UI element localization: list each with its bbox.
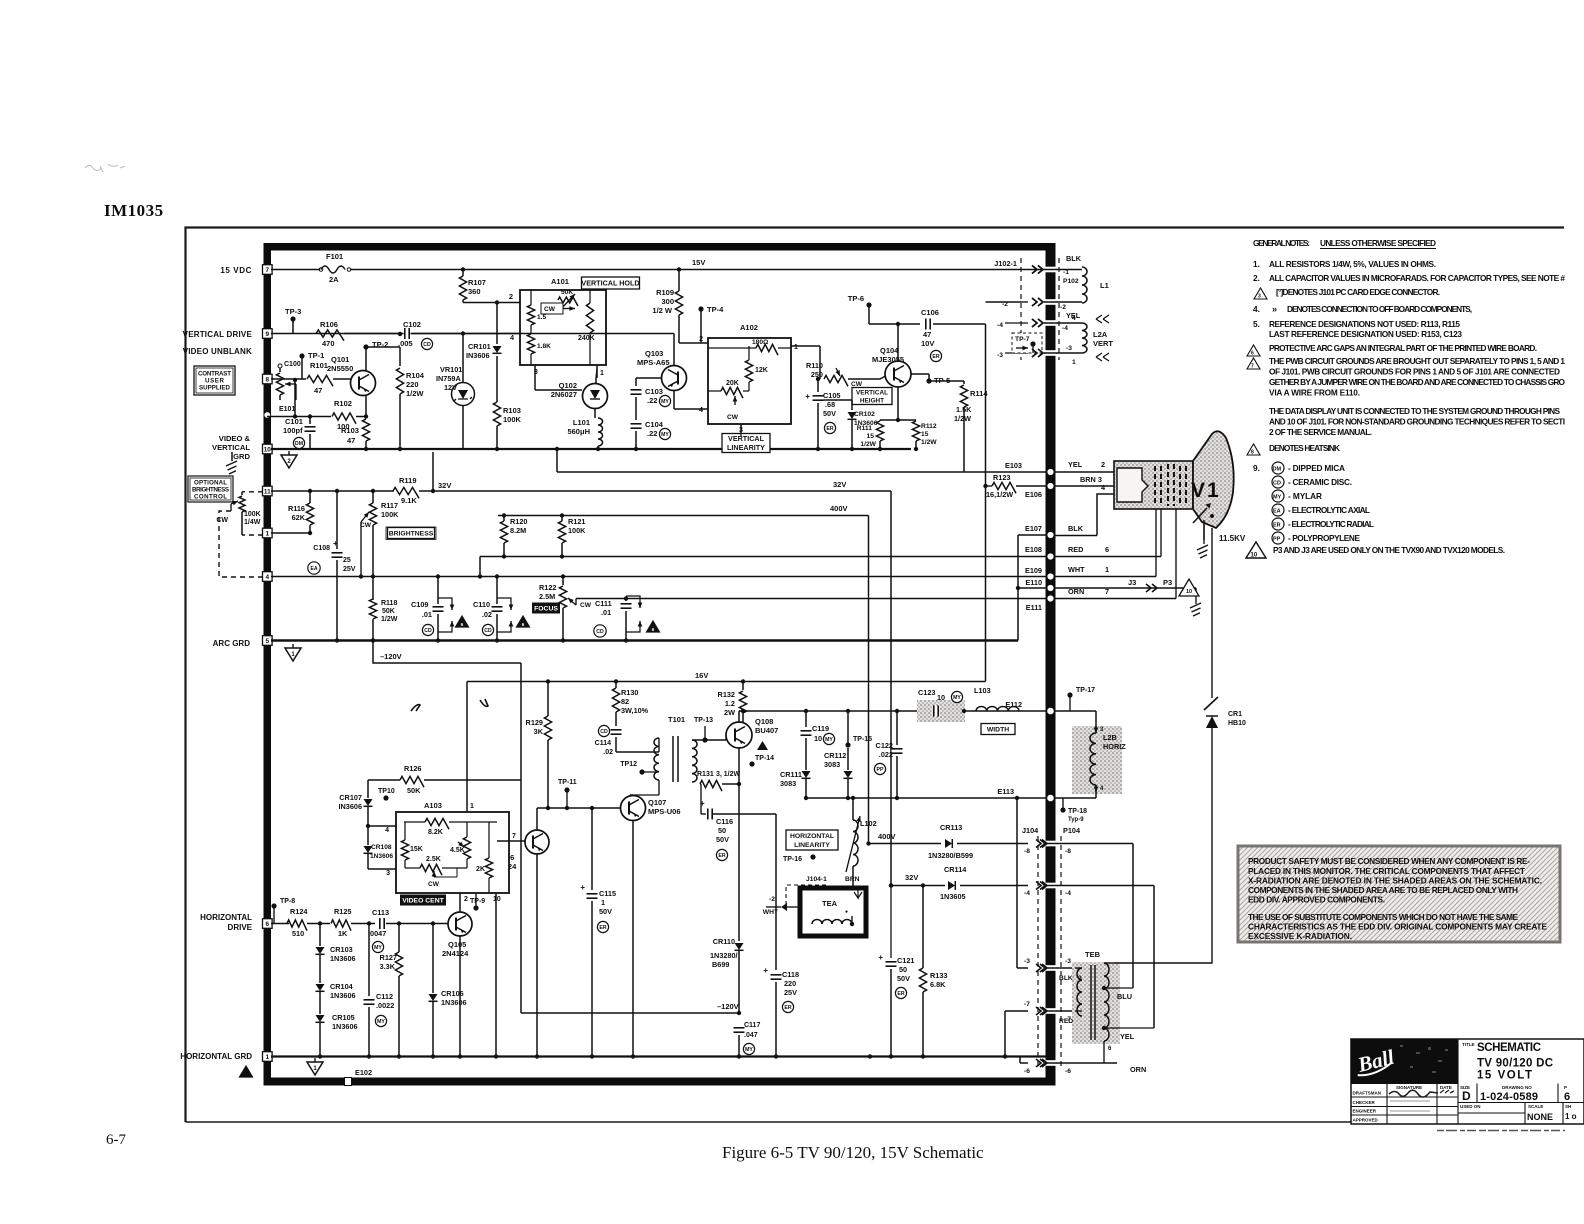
svg-text:1.: 1. [1253, 259, 1260, 269]
svg-text:62K: 62K [292, 513, 306, 522]
A103 resistor 15K [401, 840, 408, 860]
svg-text:TP-13: TP-13 [694, 717, 713, 724]
svg-text:.22: .22 [647, 396, 657, 405]
svg-text:2K: 2K [476, 866, 485, 873]
Q107 emitter column [632, 820, 634, 1057]
svg-text:.01: .01 [601, 608, 611, 617]
svg-text:5: 5 [266, 638, 270, 645]
svg-text:E101: E101 [279, 406, 295, 413]
svg-text:.005: .005 [398, 339, 413, 348]
TEB core [1090, 965, 1092, 1040]
svg-text:C111: C111 [595, 599, 612, 608]
svg-text:TP-4: TP-4 [707, 305, 724, 314]
capacitor C111 .01 CD arc gap [624, 596, 628, 600]
resistor R111 15 1/2W [876, 421, 883, 441]
svg-text:L103: L103 [974, 686, 991, 695]
svg-text:C112: C112 [376, 992, 393, 1001]
svg-text:E111: E111 [1026, 603, 1042, 612]
capacitor C102 .005 CD [344, 333, 402, 335]
svg-text:C118: C118 [782, 970, 799, 979]
resistor R126 50K [400, 776, 424, 787]
heatsink triangle at Q108 [757, 741, 768, 750]
svg-text:P: P [1564, 1085, 1567, 1090]
svg-text:D: D [1462, 1089, 1471, 1103]
resistor R112 15 1/2W [912, 421, 919, 441]
CRT anode lead [1203, 520, 1205, 540]
svg-text:-1: -1 [1063, 269, 1069, 276]
wire R107 to A101 pin 2 [463, 302, 520, 304]
svg-text:1N3605: 1N3605 [940, 892, 966, 901]
warning triangle at horizontal grd [240, 1066, 253, 1077]
svg-text:-4: -4 [997, 322, 1003, 329]
resistor R124 510 [287, 920, 307, 931]
A103 pin 7 to Q106 base [497, 840, 525, 842]
svg-text:CD: CD [424, 628, 432, 634]
J101 edge terminal 8 [263, 374, 273, 384]
CRT electrode pins dashed [1155, 464, 1186, 506]
J101 edge terminal 5 [263, 636, 273, 646]
capacitor C114 .02 CD [611, 729, 622, 736]
svg-text:1/2W: 1/2W [921, 439, 937, 446]
svg-text:R114: R114 [970, 389, 988, 398]
svg-text:BU407: BU407 [755, 726, 778, 735]
WHT wire to CRT [1055, 576, 1156, 578]
svg-text:BLK: BLK [1066, 254, 1082, 263]
left edge labels and terminals [180, 266, 252, 1061]
svg-text:THE USE OF SUBSTITUTE COMPONEN: THE USE OF SUBSTITUTE COMPONENTS WHICH D… [1248, 912, 1518, 922]
svg-text:180Ω: 180Ω [752, 339, 769, 346]
fuse F101 [320, 263, 350, 276]
capacitor C109 .01 CD arc gap [436, 574, 440, 578]
svg-text:C121: C121 [897, 956, 914, 965]
svg-text:Q102: Q102 [559, 381, 577, 390]
svg-text:P3: P3 [1163, 578, 1172, 587]
svg-text:E108: E108 [1025, 545, 1042, 554]
svg-text:EXCESSIVE K-RADIATION.: EXCESSIVE K-RADIATION. [1248, 931, 1352, 941]
svg-text:T101: T101 [668, 715, 685, 724]
transistor Q101 2N5550 [351, 371, 376, 396]
A101 resistor 1.8K [527, 334, 534, 354]
RED wire to CRT [1055, 556, 1161, 558]
svg-text:R127: R127 [380, 953, 397, 962]
A101 CW box [541, 303, 563, 314]
svg-text:TP-8: TP-8 [280, 898, 295, 905]
svg-text:CD: CD [596, 629, 604, 635]
-120V upper wire [372, 641, 374, 664]
svg-text:E106: E106 [1025, 490, 1042, 499]
svg-text:J104-1: J104-1 [806, 876, 827, 883]
svg-text:1/2W: 1/2W [406, 389, 424, 398]
svg-text:LINEARITY: LINEARITY [727, 443, 765, 452]
svg-text:6.8K: 6.8K [930, 980, 946, 989]
svg-text:1.5K: 1.5K [956, 405, 972, 414]
svg-text:10: 10 [493, 896, 501, 903]
svg-text:CW: CW [727, 414, 739, 421]
svg-text:50: 50 [718, 826, 726, 835]
svg-text:ENGINEER: ENGINEER [1353, 1109, 1377, 1114]
-120V wire from arc area down-left [371, 638, 375, 642]
wire -2 YEL [1032, 298, 1043, 306]
svg-text:50K: 50K [382, 608, 395, 615]
svg-text:R117: R117 [381, 501, 398, 510]
svg-text:.01: .01 [422, 610, 432, 619]
svg-text:.22: .22 [647, 429, 657, 438]
svg-text:-7: -7 [1024, 1001, 1030, 1008]
capacitor C112 .0022 MY [367, 921, 371, 925]
Q107 base row [537, 807, 621, 809]
svg-text:470: 470 [322, 339, 335, 348]
svg-text:3.3K: 3.3K [380, 962, 396, 971]
white circles E112 E113 on bar [1047, 707, 1055, 715]
svg-text:HORIZONTAL: HORIZONTAL [790, 833, 834, 840]
E111 focus row [576, 598, 1046, 600]
svg-text:E110: E110 [1025, 578, 1042, 587]
svg-text:COMPONENTS IN THE SHADED AREA: COMPONENTS IN THE SHADED AREA ARE TO BE … [1248, 885, 1518, 895]
capacitor C113 .0047 MY [379, 918, 386, 929]
svg-text:L2B: L2B [1103, 733, 1117, 742]
diode CR102 1N3606 [851, 400, 853, 410]
svg-text:- ELECTROLYTIC AXIAL: - ELECTROLYTIC AXIAL [1288, 505, 1370, 515]
svg-text:1 o: 1 o [1565, 1112, 1577, 1121]
horizontal ground bus [271, 1055, 1046, 1057]
svg-text:ER: ER [826, 426, 833, 432]
A103 resistor 8.2K [425, 818, 449, 829]
resistor R104 220 1/2W [396, 368, 403, 394]
diode CR108 1N3606 [367, 826, 369, 845]
svg-text:HEIGHT: HEIGHT [860, 398, 884, 405]
J101 edge terminal 6 [263, 919, 273, 929]
YEL wire to CRT pin 2 [1055, 471, 1114, 473]
svg-text:OPTIONAL: OPTIONAL [194, 480, 227, 487]
svg-text:1/2W: 1/2W [381, 616, 398, 623]
svg-text:25V: 25V [343, 566, 356, 573]
svg-text:1: 1 [266, 531, 270, 538]
400V row to J104-8 [866, 841, 870, 845]
svg-text:8.2K: 8.2K [428, 829, 443, 836]
svg-text:1N3606: 1N3606 [441, 998, 467, 1007]
svg-text:1: 1 [601, 898, 605, 907]
transistor Q103 MPS-A65 [662, 366, 687, 391]
svg-text:THE PWB CIRCUIT GROUNDS ARE BR: THE PWB CIRCUIT GROUNDS ARE BROUGHT OUT … [1269, 356, 1565, 366]
svg-text:1: 1 [1072, 359, 1076, 366]
svg-text:WIDTH: WIDTH [987, 727, 1009, 734]
svg-text:TP-6: TP-6 [848, 294, 864, 303]
svg-text:CW: CW [428, 881, 440, 888]
svg-text:3, 1/2W: 3, 1/2W [716, 771, 741, 778]
svg-text:220: 220 [784, 979, 796, 988]
svg-text:10: 10 [814, 734, 822, 743]
test point TP-16b [810, 854, 815, 859]
svg-text:R126: R126 [404, 764, 421, 773]
svg-text:Q107: Q107 [648, 798, 666, 807]
svg-text:3W,10%: 3W,10% [621, 706, 649, 715]
svg-text:1/2 W: 1/2 W [652, 306, 673, 315]
resistor R102 100 [267, 416, 331, 418]
test point TP-2 [365, 347, 367, 371]
svg-text:R121: R121 [568, 517, 585, 526]
svg-text:.02: .02 [482, 610, 492, 619]
BLK wire to CRT grid 4 [1055, 535, 1097, 537]
resistor R103 47 [365, 395, 367, 418]
svg-text:4: 4 [385, 827, 389, 834]
svg-text:L2A: L2A [1093, 330, 1108, 339]
arc bus junction dots [335, 638, 339, 642]
E108 row [480, 556, 1046, 558]
page corner pencil smudge [85, 164, 125, 172]
svg-text:4: 4 [266, 574, 270, 581]
svg-text:P3 AND J3 ARE USED ONLY ON THE: P3 AND J3 ARE USED ONLY ON THE TVX90 AND… [1273, 545, 1505, 555]
anode HV line down [1211, 528, 1213, 698]
svg-text:MPS-U06: MPS-U06 [648, 807, 681, 816]
svg-text:510: 510 [292, 929, 304, 938]
svg-text:.0022: .0022 [376, 1001, 394, 1010]
svg-text:CD: CD [1273, 481, 1281, 487]
svg-text:CR102: CR102 [854, 411, 875, 418]
CRT base key [1117, 468, 1148, 502]
svg-text:32V: 32V [438, 481, 451, 490]
svg-text:Q108: Q108 [755, 717, 773, 726]
svg-text:8: 8 [1251, 450, 1254, 456]
resistor R127 3.3K [397, 921, 401, 925]
svg-text:TP-17: TP-17 [1076, 687, 1095, 694]
emitter Q104 down to R111 R112 [897, 387, 899, 420]
vertical linearity box label [722, 434, 770, 453]
svg-text:15: 15 [921, 431, 929, 438]
svg-text:50K: 50K [407, 786, 421, 795]
svg-text:ER: ER [784, 1005, 791, 1011]
svg-text:1.2: 1.2 [725, 699, 735, 708]
svg-text:OF J101. PWB CIRCUIT GROUNDS: OF J101. PWB CIRCUIT GROUNDS FOR PINS 1 … [1269, 367, 1560, 377]
wire A102 pin1 to R110 [791, 345, 820, 347]
svg-text:- ELECTROLYTIC RADIAL: - ELECTROLYTIC RADIAL [1288, 519, 1374, 529]
svg-text:10: 10 [1186, 589, 1192, 595]
diode chain CR103 CR104 CR105 1N3606 [318, 921, 322, 925]
svg-text:VERTICAL: VERTICAL [728, 434, 765, 443]
wire from C102 node down to R104 [399, 347, 401, 366]
svg-text:3K: 3K [534, 727, 544, 736]
BRN arrow into TEA right [854, 886, 862, 899]
svg-text:1/2W: 1/2W [860, 441, 876, 448]
svg-text:TP-7: TP-7 [1015, 336, 1030, 343]
svg-text:E113: E113 [997, 787, 1014, 796]
test point TP-4 [698, 306, 703, 311]
svg-text:MJE3055: MJE3055 [872, 355, 904, 364]
svg-text:2N6027: 2N6027 [551, 390, 577, 399]
svg-text:SIGNATURE: SIGNATURE [1396, 1085, 1422, 1090]
transformer TEB shaded block [1072, 962, 1120, 1044]
svg-text:DENOTES CONNECTION TO OFF BOAR: DENOTES CONNECTION TO OFF BOARD COMPONEN… [1287, 304, 1472, 314]
J104 pin -4 row [1040, 882, 1051, 890]
svg-text:2: 2 [464, 896, 468, 903]
svg-text:C101: C101 [285, 417, 303, 426]
svg-text:-8: -8 [1024, 848, 1030, 855]
svg-text:BLK: BLK [1068, 524, 1084, 533]
transistor Q107 MPS-U06 [621, 796, 646, 821]
svg-text:2N5550: 2N5550 [327, 364, 353, 373]
svg-text:400V: 400V [878, 832, 896, 841]
capacitor C108 25 25V EA [335, 489, 339, 493]
svg-text:TP12: TP12 [620, 761, 637, 768]
inductor L101 560uH [594, 408, 596, 418]
svg-text:-4: -4 [1065, 890, 1071, 897]
svg-text:TP-15: TP-15 [853, 736, 872, 743]
svg-text:E103: E103 [1005, 461, 1022, 470]
Q108 collector to E112 row [738, 711, 740, 722]
J101 edge terminal 1 [263, 528, 273, 538]
contrast user supplied box [194, 366, 235, 395]
module A102 box [708, 338, 791, 424]
svg-text:C114: C114 [595, 740, 611, 747]
test point TP10 [383, 795, 388, 800]
module A103 box [396, 812, 509, 893]
svg-text:360: 360 [468, 287, 481, 296]
svg-text:11.5KV: 11.5KV [1219, 534, 1246, 543]
svg-text:LINEARITY: LINEARITY [794, 842, 830, 849]
svg-text:82: 82 [621, 697, 629, 706]
svg-text:47: 47 [923, 330, 931, 339]
svg-text:HORIZ: HORIZ [1103, 742, 1126, 751]
svg-text:ER: ER [718, 853, 725, 859]
note 10 triangle at P3 [1179, 579, 1199, 596]
svg-text:CR103: CR103 [330, 945, 353, 954]
svg-text:[°]DENOTES J101 PC CARD EDGE C: [°]DENOTES J101 PC CARD EDGE CONNECTOR. [1276, 287, 1440, 297]
svg-text:100: 100 [337, 422, 350, 431]
svg-text:YEL: YEL [1120, 1032, 1135, 1041]
svg-text:ORN: ORN [1068, 587, 1084, 596]
optional brightness control box [188, 476, 233, 502]
svg-text:-4: -4 [1024, 890, 1030, 897]
test point TP-13 [702, 737, 707, 742]
svg-text:IN759A: IN759A [436, 374, 461, 383]
pot R117 100K brightness [371, 489, 375, 493]
svg-text:C117: C117 [744, 1022, 760, 1029]
svg-text:R119: R119 [399, 476, 417, 485]
svg-text:BRIGHTNESS: BRIGHTNESS [389, 531, 434, 538]
E102 tie point on bottom bar [345, 1078, 352, 1086]
HV slash mark [1204, 697, 1218, 710]
svg-text:CW: CW [580, 602, 592, 609]
svg-text:16,1/2W: 16,1/2W [986, 490, 1013, 499]
svg-text:CR101: CR101 [468, 342, 491, 351]
svg-text:C123: C123 [918, 688, 935, 697]
width coil L103 [976, 707, 1019, 712]
svg-text:CD: CD [484, 628, 492, 634]
svg-text:1N3280/B599: 1N3280/B599 [928, 851, 973, 860]
16V rail [467, 681, 986, 683]
svg-text:100K: 100K [381, 510, 399, 519]
svg-text:J104: J104 [1022, 826, 1039, 835]
svg-text:»: » [1272, 304, 1277, 314]
CR112 3083 diode [846, 709, 850, 713]
svg-text:EDD DIV. APPROVED COMPONENTS.: EDD DIV. APPROVED COMPONENTS. [1248, 895, 1385, 905]
svg-text:C108: C108 [313, 545, 330, 552]
lower-left signature grid [1351, 1039, 1458, 1124]
svg-text:CR110: CR110 [713, 937, 735, 946]
test point TP-3 [290, 316, 295, 321]
A103 resistor 2K [485, 858, 492, 878]
svg-text:.022: .022 [879, 750, 893, 759]
svg-text:AND 10 OF J101. FOR NON-STAND: AND 10 OF J101. FOR NON-STANDARD GROUNDI… [1269, 417, 1565, 427]
PWB board outline (thick border) [264, 243, 1056, 1086]
svg-text:SUPPLIED: SUPPLIED [199, 385, 231, 392]
svg-text:.047: .047 [744, 1032, 758, 1039]
svg-text:L1: L1 [1100, 281, 1109, 290]
svg-text:10V: 10V [921, 339, 934, 348]
svg-text:C119: C119 [812, 724, 829, 733]
svg-text:F101: F101 [326, 252, 343, 261]
svg-text:R133: R133 [930, 971, 947, 980]
svg-text:C102: C102 [403, 320, 421, 329]
svg-text:C109: C109 [411, 600, 428, 609]
svg-text:DATE: DATE [1440, 1085, 1452, 1090]
svg-text:C110: C110 [473, 600, 490, 609]
A101 resistor 240K [586, 303, 593, 333]
svg-text:CR107: CR107 [339, 793, 362, 802]
svg-text:Q104: Q104 [880, 346, 899, 355]
svg-text:PP: PP [1273, 537, 1281, 543]
resistor R132 1.2 2W [741, 679, 745, 683]
resistor R106 470 [316, 330, 344, 341]
svg-text:9.: 9. [1253, 463, 1260, 473]
svg-text:50V: 50V [897, 974, 910, 983]
svg-text:3083: 3083 [824, 760, 840, 769]
resistor R114 1.5K 1/2W [963, 381, 965, 384]
svg-text:CR111: CR111 [780, 770, 802, 779]
Q108 emitter column [738, 748, 740, 784]
svg-text:400V: 400V [830, 504, 848, 513]
svg-text:R110: R110 [806, 361, 823, 370]
resistor R103A 100K [496, 379, 498, 402]
svg-text:NONE: NONE [1527, 1112, 1553, 1122]
svg-text:THE DATA DISPLAY UNIT IS CONNE: THE DATA DISPLAY UNIT IS CONNECTED TO TH… [1269, 406, 1560, 416]
capacitor C123 10 MY [933, 706, 940, 717]
BRN wire to CRT pin 3 [1055, 485, 1117, 487]
32V vertical from upper section [890, 491, 892, 886]
J101 edge terminal 1 [263, 1052, 273, 1062]
svg-text:J102-1: J102-1 [994, 259, 1017, 268]
svg-text:15K: 15K [410, 846, 423, 853]
resistor R121 100K [560, 513, 564, 517]
svg-text:1: 1 [600, 370, 604, 377]
svg-text:VERTICAL: VERTICAL [856, 390, 888, 397]
CR110 column from emitter [737, 782, 741, 786]
J101 edge terminal 7 [263, 265, 273, 275]
svg-text:CR105: CR105 [332, 1013, 355, 1022]
chassis ground at J3 P3 [1190, 603, 1201, 616]
svg-text:15 VDC: 15 VDC [220, 266, 252, 275]
svg-text:1: 1 [470, 803, 474, 810]
E112 row [739, 710, 1046, 712]
svg-text:C105: C105 [823, 391, 840, 400]
video and vertical ground bus [271, 448, 911, 450]
svg-text:WHT: WHT [763, 909, 779, 916]
A103 pot 4.5K [463, 837, 470, 859]
svg-text:MY: MY [661, 399, 669, 405]
flyback inductor L102 [851, 796, 855, 800]
svg-text:1N3606: 1N3606 [330, 991, 356, 1000]
svg-text:CHARACTERISTICS AS THE EDD DIV: CHARACTERISTICS AS THE EDD DIV. ORIGINAL… [1248, 922, 1547, 932]
svg-text:4: 4 [510, 335, 514, 342]
vertical height box label [852, 388, 892, 405]
svg-text:15: 15 [867, 433, 875, 440]
svg-text:TITLE: TITLE [1462, 1042, 1475, 1047]
svg-text:11: 11 [264, 489, 271, 496]
capacitor C117 .047 MY [734, 1027, 745, 1034]
svg-text:R124: R124 [290, 907, 308, 916]
svg-text:C122: C122 [876, 741, 893, 750]
svg-text:R120: R120 [510, 517, 527, 526]
resistor R130 82 3W 10% [614, 679, 618, 683]
